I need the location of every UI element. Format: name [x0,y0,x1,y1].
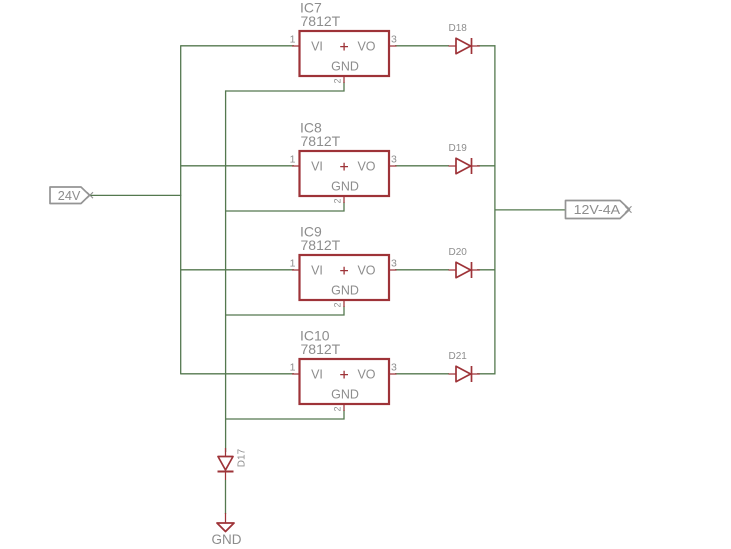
svg-text:7812T: 7812T [301,13,341,29]
wire input bus to IC10 pin 1 [181,373,294,375]
svg-text:D18: D18 [449,23,468,34]
svg-text:3: 3 [391,361,397,373]
svg-text:D21: D21 [449,351,468,362]
svg-text:7812T: 7812T [301,237,341,253]
svg-text:7812T: 7812T [301,133,341,149]
svg-text:VI: VI [311,160,323,174]
svg-text:GND: GND [331,180,359,194]
wire IC8 pin 3 to diode D19 [395,165,449,167]
wire IC10 GND pin to ground bus [226,410,345,419]
wire input bus to IC9 pin 1 [181,269,294,271]
svg-text:3: 3 [391,33,397,45]
voltage regulator IC8 7812T [290,120,397,204]
svg-text:7812T: 7812T [301,341,341,357]
svg-text:3: 3 [391,153,397,165]
svg-text:VO: VO [357,368,375,382]
svg-text:GND: GND [212,532,242,547]
wire input bus to IC7 pin 1 [181,45,294,47]
diode D20 [449,247,480,278]
svg-text:D20: D20 [449,247,468,258]
wire ground bus (vertical) [225,90,227,452]
wire diode D19 to output bus [477,165,496,167]
wire IC9 GND pin to ground bus [226,306,345,315]
diode D17 [218,448,248,480]
svg-text:1: 1 [290,153,296,165]
svg-text:24V: 24V [58,188,81,203]
svg-text:2: 2 [332,78,342,83]
diode D18 [449,23,480,54]
svg-text:D19: D19 [449,143,468,154]
svg-text:D17: D17 [237,448,248,467]
wire IC8 GND pin to ground bus [226,202,345,211]
voltage regulator IC10 7812T [290,328,397,412]
wire input bus (vertical) [180,45,182,374]
wire input bus to IC8 pin 1 [181,165,294,167]
svg-text:2: 2 [332,198,342,203]
svg-text:12V-4A: 12V-4A [574,203,621,217]
wire IC7 GND pin to ground bus [226,82,345,91]
svg-text:VO: VO [357,160,375,174]
voltage regulator IC9 7812T [290,224,397,308]
wire diode D18 to output bus [477,45,496,47]
wire D17 cathode to ground [225,480,227,514]
svg-text:2: 2 [332,406,342,411]
svg-text:1: 1 [290,33,296,45]
svg-text:GND: GND [331,388,359,402]
supply flag 24V [50,187,93,204]
svg-text:3: 3 [391,257,397,269]
svg-text:VI: VI [311,40,323,54]
ground symbol GND [212,513,242,547]
diode D19 [449,143,480,174]
svg-text:GND: GND [331,284,359,298]
wire 24V to input bus [91,194,182,196]
svg-text:VI: VI [311,368,323,382]
svg-text:VO: VO [357,40,375,54]
svg-text:VO: VO [357,264,375,278]
wire diode D21 to output bus [477,373,496,375]
svg-text:1: 1 [290,361,296,373]
net flag 12V-4A [566,201,632,219]
svg-text:VI: VI [311,264,323,278]
diode D21 [449,351,480,382]
wire IC10 pin 3 to diode D21 [395,373,449,375]
svg-text:2: 2 [332,302,342,307]
wire diode D20 to output bus [477,269,496,271]
wire output bus to 12V-4A [495,209,566,211]
svg-text:GND: GND [331,60,359,74]
wire output bus (vertical) [494,45,496,374]
wire IC7 pin 3 to diode D18 [395,45,449,47]
voltage regulator IC7 7812T [290,0,397,84]
wire IC9 pin 3 to diode D20 [395,269,449,271]
svg-text:1: 1 [290,257,296,269]
